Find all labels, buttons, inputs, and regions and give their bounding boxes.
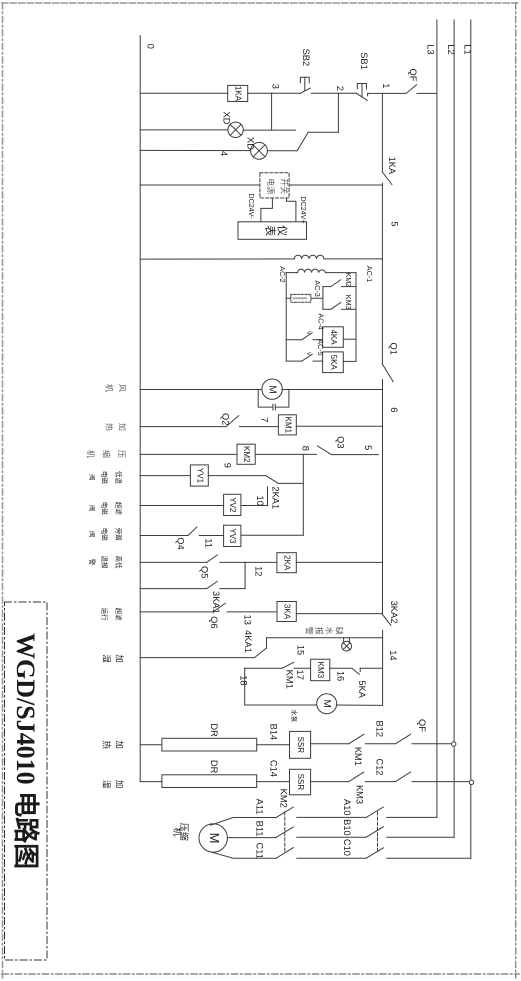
svg-text:V: V xyxy=(305,352,311,356)
wire 3KA1 branch rail to blade xyxy=(140,588,207,590)
svg-text:阀: 阀 xyxy=(88,474,97,481)
svg-text:水泵: 水泵 xyxy=(290,709,299,723)
wire 2KA coil to rail xyxy=(296,561,382,563)
inductor coil AC-1 xyxy=(294,255,324,259)
svg-text:电磁: 电磁 xyxy=(100,502,109,516)
svg-text:9: 9 xyxy=(223,463,233,468)
svg-text:湿: 湿 xyxy=(102,780,112,789)
svg-text:DC24V+: DC24V+ xyxy=(299,196,308,223)
page border top xyxy=(2,2,519,4)
wire 4KA1 branch rail to blade xyxy=(140,657,254,659)
contact KM1 blade (17) xyxy=(282,662,293,668)
svg-text:5KA: 5KA xyxy=(329,355,338,371)
svg-text:B14: B14 xyxy=(268,724,278,741)
wire KM1 to KM3 coil xyxy=(294,667,310,669)
svg-text:Q2: Q2 xyxy=(221,413,231,425)
solenoid coil YV3 box xyxy=(224,525,241,546)
svg-text:报: 报 xyxy=(314,627,324,635)
svg-text:5: 5 xyxy=(363,445,373,450)
svg-text:KM3: KM3 xyxy=(316,662,325,679)
wire merge to 2KA coil xyxy=(245,561,277,563)
contactor KM2 pole A blade xyxy=(276,807,293,817)
svg-text:SSR: SSR xyxy=(296,774,305,791)
SB1 fixed stub xyxy=(367,93,369,96)
page border right xyxy=(515,3,517,978)
contact 2KA1 fixed vertical xyxy=(267,487,269,506)
svg-text:加: 加 xyxy=(118,423,128,431)
svg-text:3KA1: 3KA1 xyxy=(211,591,221,614)
wire B11 xyxy=(227,837,276,839)
wire heat branch rail to Q2 xyxy=(140,426,226,428)
svg-text:超滤: 超滤 xyxy=(114,502,123,516)
wire Q6 branch rail to blade xyxy=(140,611,213,613)
push button SB2 blade xyxy=(300,88,310,93)
wire B row to L2 xyxy=(387,836,454,838)
svg-text:压: 压 xyxy=(117,450,126,458)
page border left xyxy=(2,3,4,978)
svg-text:超滤: 超滤 xyxy=(114,608,123,622)
contact QF blade heater xyxy=(396,734,411,744)
power line L3 xyxy=(436,20,438,817)
left rail wire 0 xyxy=(139,36,141,782)
wire KM1 coil to rail xyxy=(296,425,382,427)
svg-text:XD: XD xyxy=(245,137,255,150)
wire heater2 rail to DR xyxy=(140,781,162,783)
wire A11 fanout xyxy=(210,818,276,826)
svg-text:Q3: Q3 xyxy=(336,436,346,448)
solid state relay SSR1 box xyxy=(290,731,311,758)
svg-text:低温: 低温 xyxy=(114,471,123,485)
svg-text:17: 17 xyxy=(295,670,305,680)
AC block inner vertical xyxy=(322,287,324,310)
wire branchE rail to coil xyxy=(140,258,294,260)
relay coil 3KA box xyxy=(277,602,296,622)
terminal circle on L2 xyxy=(452,742,456,746)
contact Q4 blade xyxy=(188,527,197,536)
svg-text:表: 表 xyxy=(264,225,278,236)
svg-text:加: 加 xyxy=(115,654,125,663)
svg-text:KM2: KM2 xyxy=(344,272,353,287)
contactor coil KM3 box xyxy=(311,659,330,681)
wire C row mid xyxy=(297,857,366,859)
contactor KM2 pole C blade xyxy=(276,848,293,859)
contactor KM2 pole B blade xyxy=(276,827,293,837)
control rail segment 1 (junction to 1KA) xyxy=(381,93,383,171)
relay box 4KA xyxy=(323,327,344,348)
stub power box right to instrument xyxy=(287,198,296,222)
wire KM3 coil to 5KA xyxy=(330,667,352,669)
svg-text:水: 水 xyxy=(324,627,334,635)
contact KM3 row in AC block xyxy=(323,308,331,310)
wire C11 fanout xyxy=(210,852,276,858)
AC-2 block left edge xyxy=(285,273,287,362)
svg-text:KM2: KM2 xyxy=(242,446,251,463)
solenoid coil YV2 box xyxy=(224,494,241,515)
wire AC-3 xyxy=(286,297,323,299)
svg-text:1KA: 1KA xyxy=(234,86,243,102)
contact KM1 blade heater xyxy=(349,734,364,744)
AC-2 block top edge with inductor xyxy=(286,272,297,274)
contactor KM3 pole A blade xyxy=(366,807,383,817)
contact Q2 blade xyxy=(226,416,239,427)
SB1 actuator xyxy=(357,84,366,98)
alarm lamp drop xyxy=(344,638,350,642)
svg-text:警: 警 xyxy=(304,627,314,635)
wire YV3 branch rail to Q4 xyxy=(140,535,188,537)
contact 2KA1 blade diagonal xyxy=(266,476,279,484)
contactor coil KM2 box xyxy=(237,444,255,464)
wire fan motor to rail xyxy=(282,389,383,391)
wire to L2 terminal xyxy=(412,743,451,745)
svg-text:C14: C14 xyxy=(268,760,278,777)
wire SB1 to SB2 row xyxy=(312,92,339,94)
capacitor loop fan xyxy=(258,389,289,407)
wire QF to rail junction xyxy=(382,92,406,94)
wire Q6 to 3KA coil xyxy=(227,611,277,613)
svg-text:5: 5 xyxy=(389,221,399,226)
svg-text:Q5: Q5 xyxy=(200,566,210,578)
wire fan branch rail to motor xyxy=(140,389,262,391)
svg-text:C11: C11 xyxy=(255,843,265,859)
power line L2 xyxy=(453,20,455,837)
wire SSR2 to KM3 blade xyxy=(311,781,349,783)
push button SB1 NC blade xyxy=(357,93,368,100)
alarm lamp 缺水报警 xyxy=(342,641,352,651)
svg-text:阀: 阀 xyxy=(88,505,97,512)
svg-text:15: 15 xyxy=(296,645,306,655)
heater resistor DR1 xyxy=(162,738,257,751)
svg-text:KM3: KM3 xyxy=(344,295,353,310)
junction 3 drop wire xyxy=(271,93,273,130)
svg-text:2: 2 xyxy=(335,86,345,91)
contact AC-5 row xyxy=(286,360,302,362)
wire L3 to QF xyxy=(417,92,437,94)
contact 4KA1 blade xyxy=(255,648,267,658)
contact Q5 blade xyxy=(207,555,218,563)
svg-text:A10: A10 xyxy=(342,799,352,816)
svg-text:加: 加 xyxy=(115,780,125,789)
svg-text:3KA: 3KA xyxy=(282,604,291,620)
dashed box switching power xyxy=(260,173,289,198)
wire C row to L1 xyxy=(387,857,471,859)
wire jog diagonal xyxy=(297,132,308,151)
wire 5KA to rail xyxy=(360,667,382,669)
lamp XD2 xyxy=(251,142,268,159)
svg-text:运行: 运行 xyxy=(100,608,109,622)
svg-text:KM2: KM2 xyxy=(279,789,289,808)
svg-text:B11: B11 xyxy=(255,821,265,837)
svg-text:YV3: YV3 xyxy=(228,528,237,544)
wire branchB rail to lamp XD1 xyxy=(140,129,228,131)
KM2 linkage dashed xyxy=(284,812,286,853)
svg-text:SB2: SB2 xyxy=(301,49,311,67)
wire 3KA1 to merge vertical xyxy=(220,588,245,590)
svg-text:3: 3 xyxy=(271,84,281,89)
wire YV1 branch rail to coil xyxy=(140,475,190,477)
relay coil 1KA box xyxy=(228,85,248,101)
svg-text:YV2: YV2 xyxy=(228,497,237,513)
svg-text:仪: 仪 xyxy=(276,225,289,236)
svg-text:4: 4 xyxy=(219,151,229,156)
svg-text:电磁: 电磁 xyxy=(100,471,109,485)
pump loop bottom wire right xyxy=(337,704,383,706)
svg-text:1KA: 1KA xyxy=(387,157,397,175)
junction 2 drop wire xyxy=(337,93,339,132)
svg-text:AC-3: AC-3 xyxy=(313,280,322,296)
svg-text:旁路: 旁路 xyxy=(114,528,123,542)
svg-text:电源: 电源 xyxy=(266,178,276,194)
instrument box 仪表 xyxy=(238,222,307,240)
wire YV1 merge to collector xyxy=(278,482,303,484)
svg-text:6: 6 xyxy=(389,407,399,412)
control rail segment 6 xyxy=(382,380,384,614)
svg-text:C12: C12 xyxy=(374,758,384,775)
wire A row mid xyxy=(297,816,366,818)
svg-text:机: 机 xyxy=(86,450,96,458)
svg-text:QF: QF xyxy=(417,719,427,732)
svg-text:10: 10 xyxy=(255,496,265,506)
svg-text:V: V xyxy=(305,331,311,335)
svg-text:Q6: Q6 xyxy=(209,616,219,628)
wire DR2 to SSR2 xyxy=(257,781,290,783)
svg-text:16: 16 xyxy=(336,671,346,681)
contact 1KA blade on rail xyxy=(382,172,392,185)
svg-text:12: 12 xyxy=(254,566,264,576)
svg-text:11: 11 xyxy=(203,538,213,548)
svg-text:5KA: 5KA xyxy=(357,680,367,698)
breaker QF blade xyxy=(406,85,416,94)
stub power box to step xyxy=(261,198,273,222)
wire coil to rail xyxy=(324,258,383,260)
svg-text:KM3: KM3 xyxy=(355,785,365,804)
svg-text:加: 加 xyxy=(115,740,125,749)
svg-text:14: 14 xyxy=(388,650,398,660)
svg-text:M: M xyxy=(207,833,222,844)
svg-text:L3: L3 xyxy=(425,44,435,54)
contactor KM3 pole B blade xyxy=(366,827,383,837)
svg-text:8: 8 xyxy=(301,446,311,451)
heater resistor DR2 xyxy=(162,775,257,788)
svg-text:警: 警 xyxy=(88,559,97,566)
wire 15 to rail xyxy=(267,637,383,639)
svg-text:电磁: 电磁 xyxy=(100,528,109,542)
wire KM2 coil to Q3 xyxy=(255,453,316,455)
svg-text:AC-4: AC-4 xyxy=(317,313,326,329)
wire 17 branch to KM1 blade xyxy=(245,667,283,669)
dashed component AC-3 xyxy=(291,294,311,302)
motor M compressor xyxy=(199,824,227,852)
KM3 linkage dashed xyxy=(377,812,379,853)
wire YV1 to 2KA1 xyxy=(208,475,265,477)
wire 18 branch vertical xyxy=(244,668,246,705)
contact Q6 blade xyxy=(213,603,226,612)
wire Q5 branch rail to blade xyxy=(140,561,207,563)
wire C12 xyxy=(365,781,395,783)
wire 5 segment with gap xyxy=(332,454,379,456)
wire heater1 rail to DR xyxy=(140,744,162,746)
wire DR1 to SSR1 xyxy=(257,744,290,746)
wire YV2 branch rail to coil xyxy=(140,505,223,507)
contact 5KA NC blade xyxy=(352,668,359,674)
relay box 5KA xyxy=(323,352,344,373)
svg-text:风: 风 xyxy=(118,384,127,392)
contact 3KA2 blade on rail xyxy=(382,614,391,626)
wire B row mid xyxy=(297,836,366,838)
svg-text:4KA: 4KA xyxy=(329,329,338,345)
contactor KM3 pole C blade xyxy=(366,848,383,858)
motor M pump xyxy=(317,694,337,714)
wire 1KA coil to junction 3 xyxy=(248,92,301,94)
wire 4KA1 jog up xyxy=(266,638,268,648)
svg-text:M: M xyxy=(321,700,332,708)
svg-text:热: 热 xyxy=(105,423,115,431)
svg-text:AC-5: AC-5 xyxy=(316,339,325,355)
contact AC-4 row xyxy=(286,339,302,341)
svg-text:开关: 开关 xyxy=(280,178,290,194)
svg-text:SSR: SSR xyxy=(296,737,305,754)
relay coil 2KA box xyxy=(277,553,296,573)
wire lamp XD1 right dead end xyxy=(243,129,295,131)
svg-text:1: 1 xyxy=(381,83,391,88)
wire 3KA coil to rail xyxy=(296,613,381,615)
svg-text:YV1: YV1 xyxy=(195,468,204,484)
svg-text:2KA1: 2KA1 xyxy=(270,486,280,509)
wire branchD rail to instrument (DC24V) xyxy=(140,184,382,186)
svg-text:KM1: KM1 xyxy=(285,670,295,689)
svg-text:阀: 阀 xyxy=(88,531,97,538)
svg-text:机: 机 xyxy=(105,384,115,392)
svg-text:机: 机 xyxy=(172,827,183,836)
wire YV3 to collector xyxy=(241,534,303,536)
wire YV2 to 2KA1 vertical xyxy=(241,505,268,507)
svg-text:0: 0 xyxy=(146,44,156,49)
capacitor plates xyxy=(273,404,275,410)
svg-text:AC-1: AC-1 xyxy=(365,266,374,282)
control rail segment 14 xyxy=(382,630,384,705)
svg-text:温报: 温报 xyxy=(100,556,109,570)
wire branchC rail to lamp XD2 xyxy=(140,149,250,151)
wire jog to junction 2 xyxy=(308,131,338,133)
wire A row to L3 xyxy=(387,816,437,818)
svg-text:KM1: KM1 xyxy=(353,747,363,766)
contactor coil KM1 box xyxy=(278,415,296,435)
svg-text:DC24V-: DC24V- xyxy=(247,193,256,219)
wire branchA left rail to 1KA coil xyxy=(140,92,228,94)
svg-text:SB1: SB1 xyxy=(359,52,369,70)
contact 3KA1 blade xyxy=(207,581,218,588)
solenoid coil YV1 box xyxy=(190,465,208,486)
svg-text:3KA2: 3KA2 xyxy=(389,601,399,624)
svg-text:AC-2: AC-2 xyxy=(278,266,287,282)
svg-text:2KA: 2KA xyxy=(282,555,291,571)
svg-text:KM1: KM1 xyxy=(283,417,292,434)
motor M fan xyxy=(262,379,282,399)
svg-text:热: 热 xyxy=(102,740,112,749)
svg-text:湿: 湿 xyxy=(102,654,112,663)
svg-text:A11: A11 xyxy=(255,799,265,815)
terminal circle on L1 xyxy=(469,780,473,784)
merge vertical Q5/3KA1 xyxy=(244,562,246,588)
5KA fixed stub xyxy=(359,668,361,671)
svg-text:13: 13 xyxy=(242,615,252,625)
power line L1 xyxy=(470,20,472,858)
svg-text:DR: DR xyxy=(209,723,219,737)
svg-text:B10: B10 xyxy=(342,819,352,836)
wire Q4 to YV3 coil xyxy=(199,535,223,537)
lamp XD1 xyxy=(228,122,243,137)
contact QF blade heater2 xyxy=(396,772,411,782)
svg-text:B12: B12 xyxy=(374,721,384,738)
svg-text:XD: XD xyxy=(222,112,232,125)
contact KM3 blade heater2 xyxy=(349,772,364,782)
svg-text:QF: QF xyxy=(408,69,418,82)
SB2 actuator xyxy=(300,77,309,90)
svg-text:Q1: Q1 xyxy=(389,342,399,354)
svg-text:7: 7 xyxy=(259,417,269,422)
collector vertical 8 xyxy=(302,454,304,535)
svg-text:C10: C10 xyxy=(342,839,352,856)
svg-text:高低: 高低 xyxy=(114,556,123,570)
wire SB1 to rail xyxy=(368,92,383,94)
control rail segment 5 xyxy=(381,183,383,364)
wire B12 xyxy=(365,743,395,745)
disconnect Q1 blade xyxy=(383,364,394,381)
wire Q2 to KM1 coil xyxy=(240,426,279,428)
title block dashed box xyxy=(5,602,48,960)
svg-text:L1: L1 xyxy=(463,44,473,54)
AC-2 block right edge xyxy=(355,273,357,362)
contact KM2 row in AC block xyxy=(323,286,331,288)
wire to L1 terminal xyxy=(412,781,470,783)
solid state relay SSR2 box xyxy=(290,769,311,795)
svg-text:M: M xyxy=(266,385,277,393)
wire lamp XD2 to jog xyxy=(267,150,297,152)
contact Q3 blade xyxy=(318,446,332,454)
svg-text:4KA1: 4KA1 xyxy=(243,630,253,653)
svg-text:Q4: Q4 xyxy=(175,537,185,549)
page border bottom xyxy=(2,973,519,975)
wire SSR1 to KM1 blade xyxy=(311,743,349,745)
wire Q5 to merge vertical xyxy=(220,561,245,563)
svg-text:18: 18 xyxy=(239,675,249,685)
svg-text:缩: 缩 xyxy=(101,450,111,458)
pump loop bottom wire left xyxy=(245,704,317,706)
svg-text:WGD/SJ4010 电路图: WGD/SJ4010 电路图 xyxy=(11,633,41,869)
svg-text:DR: DR xyxy=(209,760,219,774)
wire compressor branch rail to KM2 coil xyxy=(140,453,237,455)
svg-text:缺: 缺 xyxy=(334,627,344,635)
svg-text:L2: L2 xyxy=(446,44,456,54)
